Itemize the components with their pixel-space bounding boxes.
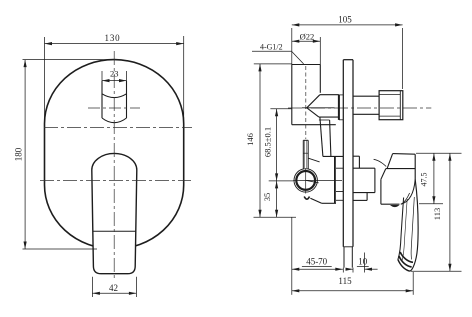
svg-text:42: 42 xyxy=(109,283,118,293)
svg-text:45-70: 45-70 xyxy=(306,256,327,266)
svg-text:105: 105 xyxy=(338,15,352,25)
svg-text:146: 146 xyxy=(245,133,255,146)
svg-text:68.5±0.1: 68.5±0.1 xyxy=(263,127,273,157)
svg-text:35: 35 xyxy=(262,193,272,202)
svg-text:113: 113 xyxy=(432,208,442,220)
svg-text:4-G1/2: 4-G1/2 xyxy=(260,43,283,52)
svg-text:47.5: 47.5 xyxy=(420,173,429,187)
svg-text:23: 23 xyxy=(110,69,119,79)
svg-text:130: 130 xyxy=(105,33,121,43)
svg-text:115: 115 xyxy=(338,276,352,286)
svg-text:10: 10 xyxy=(358,256,368,266)
svg-text:180: 180 xyxy=(14,147,24,161)
svg-text:Ø22: Ø22 xyxy=(300,32,315,42)
